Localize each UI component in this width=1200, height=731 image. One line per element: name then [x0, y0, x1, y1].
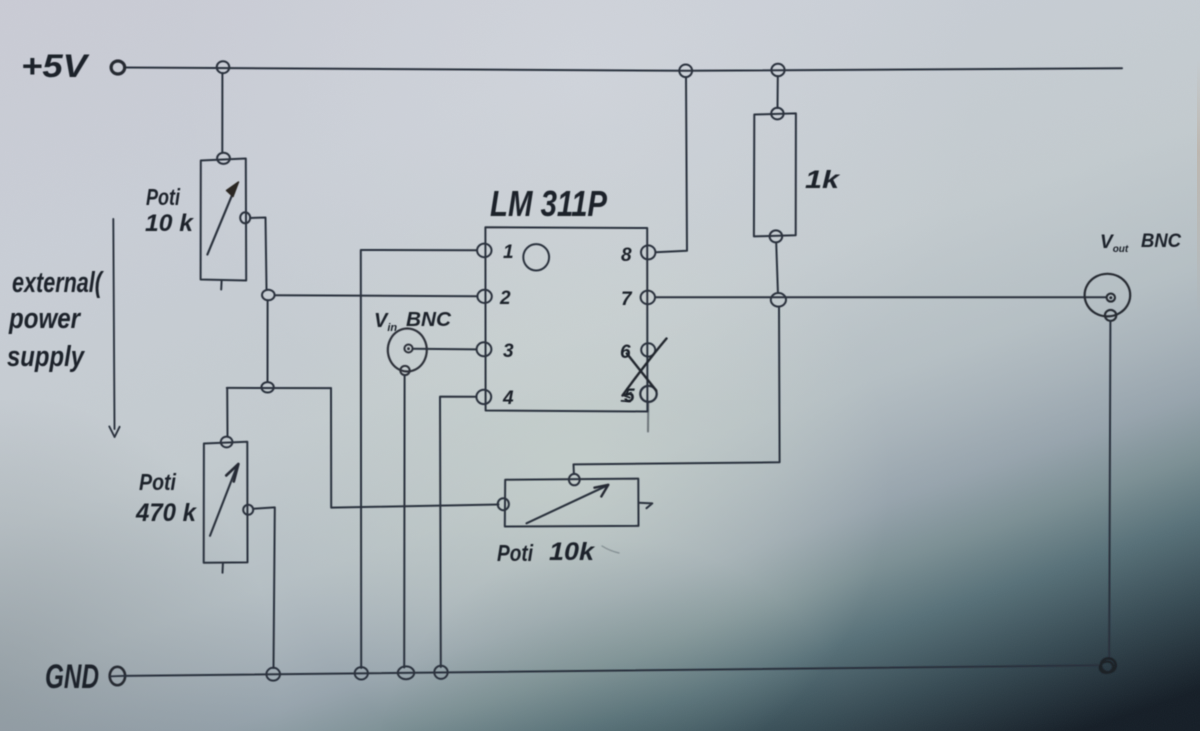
wire junction A to pin2 [275, 294, 478, 297]
node GND terminal [110, 667, 125, 685]
IC notch circle [523, 244, 549, 270]
svg-text:power: power [8, 303, 81, 335]
svg-text:Poti: Poti [139, 469, 177, 495]
BNC J2 center pin [1107, 294, 1115, 302]
pin 8 circle [641, 245, 655, 259]
poti10kB right stub [639, 503, 653, 509]
svg-text:BNC: BNC [1141, 231, 1181, 252]
node poti10kB top [569, 474, 580, 485]
svg-text:+5V: +5V [21, 48, 90, 84]
svg-text:3: 3 [503, 341, 514, 362]
node junction rail-pin8 [679, 65, 692, 78]
node GND junction Vin shield [398, 666, 414, 679]
node junction B [261, 382, 273, 392]
svg-text:470 k: 470 k [135, 499, 197, 527]
pin 6 circle [641, 343, 655, 356]
wire Vin shield to GND [403, 375, 405, 667]
warm sliver right edge [1197, 60, 1200, 320]
svg-text:10k: 10k [549, 538, 595, 566]
svg-text:1: 1 [503, 242, 514, 263]
pin 5 circle [640, 386, 656, 402]
node 1k top [771, 108, 783, 120]
faint paper scratch near Poti 10k label [602, 546, 619, 553]
node GND junction pin4 [434, 666, 447, 679]
wire 470k top net [227, 387, 331, 389]
X cross stroke B [627, 354, 656, 391]
IC U1 LM311P body [485, 227, 647, 411]
wire tap to junction A [250, 218, 267, 290]
svg-text:Poti: Poti [146, 184, 180, 210]
BNC J1 shield circle [400, 366, 409, 375]
svg-text:2: 2 [499, 288, 511, 309]
X cross stroke A barbs [622, 393, 632, 402]
node poti10k tap [240, 212, 250, 223]
X cross stroke A [623, 339, 667, 396]
wire junction B right arm down [331, 388, 499, 508]
node junction pin7-1k [771, 293, 786, 307]
poti470k bottom tick [222, 564, 224, 573]
node junction A [262, 290, 275, 301]
node +5V terminal [111, 61, 125, 74]
external supply arrowhead [109, 427, 119, 438]
svg-text:7: 7 [621, 289, 633, 310]
pin 2 circle [477, 290, 491, 303]
BNC J2 center dot [1109, 296, 1112, 299]
resistor R3 1k body [754, 113, 796, 236]
external supply arrow line [113, 219, 114, 429]
GND terminal crossbar [110, 675, 126, 678]
node GND junction poti470k [266, 668, 280, 681]
bottom-center teal shade [300, 540, 980, 731]
pin 3 circle [477, 342, 492, 356]
pin 4 circle [476, 390, 491, 404]
wire GND rail [126, 665, 1102, 676]
node junction rail-1k [771, 64, 784, 76]
wire Vout shield to GND [1109, 321, 1110, 658]
wire pin1 left and down to GND [361, 250, 477, 668]
node poti10k top [217, 153, 230, 164]
node 1k bottom [770, 230, 783, 242]
wire tap to GND drop [253, 507, 275, 668]
BNC J1 Vin outer circle [388, 329, 427, 372]
node GND junction pin1 [355, 667, 368, 679]
wire pin8 to +5V rail [656, 77, 687, 252]
BNC J2 Vout outer circle [1085, 274, 1131, 317]
node poti470k tap [243, 505, 253, 515]
poti10kB wiper arrow [527, 486, 607, 523]
svg-text:10 k: 10 k [145, 210, 195, 237]
wire +5V rail [125, 68, 1122, 71]
svg-text:4: 4 [502, 388, 514, 409]
wire rail to poti10k [221, 73, 223, 152]
svg-text:LM 311P: LM 311P [490, 183, 608, 224]
wire pin4 left and down to GND [440, 397, 477, 667]
bottom-left corner soft shade [0, 400, 420, 731]
wire 1k bottom to pin7 net [776, 243, 778, 293]
poti10k wiper arrow [207, 185, 236, 254]
potentiometer R1 body (Poti 10k) [201, 159, 247, 281]
svg-text:5: 5 [624, 386, 635, 407]
wire rail to 1k top [777, 76, 779, 108]
wire junction down to poti10kB net [574, 307, 780, 475]
pin 7 circle [641, 291, 655, 305]
svg-text:Poti: Poti [497, 540, 533, 566]
paper top highlight [0, 0, 1200, 400]
wire down to poti470k top [226, 388, 228, 437]
svg-text:1k: 1k [805, 166, 840, 194]
pin 1 circle [477, 244, 491, 258]
svg-text:6: 6 [620, 342, 631, 363]
svg-text:8: 8 [621, 245, 632, 266]
poti470k arrowhead [226, 464, 238, 482]
wire Vin to pin3 [413, 348, 477, 351]
pin5 stub below IC [647, 403, 649, 432]
BNC J1 center dot [407, 347, 410, 350]
node GND end terminal [1101, 658, 1116, 672]
svg-text:supply: supply [7, 341, 86, 373]
BNC J1 center pin [404, 345, 412, 353]
poti470k wiper arrow [210, 466, 237, 536]
wire junction A down to junction B [267, 300, 269, 381]
potentiometer R2 body (Poti 470k) [204, 442, 248, 563]
potentiometer R4 body (Poti 10k bottom) [505, 479, 639, 527]
wire pin7 to Vout [655, 296, 1106, 298]
node poti10kB left tap [498, 498, 509, 510]
BNC J2 shield circle [1105, 310, 1116, 321]
svg-text:BNC: BNC [406, 309, 452, 331]
node poti470k top [221, 437, 233, 448]
svg-text:GND: GND [45, 658, 99, 696]
svg-text:external(: external( [12, 267, 104, 299]
node junction rail-poti10k [217, 61, 230, 73]
poti10k arrowhead [227, 182, 239, 197]
poti10kB arrowhead [595, 485, 609, 497]
poti10k bottom tick [220, 281, 222, 290]
